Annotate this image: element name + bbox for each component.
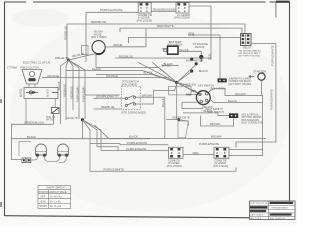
wire RED to relay <box>129 38 241 44</box>
wire RED/WHITE <box>120 28 242 33</box>
wire right block to right bus <box>189 6 211 60</box>
svg-text:BLOCK: BLOCK <box>195 45 205 49</box>
svg-text:RELAY: RELAY <box>243 46 252 50</box>
wire PURPLE/WHITE top <box>86 12 138 62</box>
svg-text:PURPLE/WHITE: PURPLE/WHITE <box>270 45 274 66</box>
title block <box>250 201 296 220</box>
svg-text:SCH 170425 R1: SCH 170425 R1 <box>270 218 286 220</box>
svg-text:(NOT INPUT WILING): (NOT INPUT WILING) <box>239 56 261 58</box>
wire BLACK bus 3 <box>96 74 177 82</box>
svg-text:177788A: 177788A <box>7 67 17 70</box>
wire YELLOW to starter <box>209 80 262 95</box>
svg-text:RUN: RUN <box>41 201 46 203</box>
svg-text:BLACK: BLACK <box>162 64 171 68</box>
key switch S1 <box>196 83 225 104</box>
seat switch S3 <box>205 108 238 118</box>
faint smudge top left <box>12 9 68 27</box>
svg-text:BLACK: BLACK <box>129 135 138 139</box>
electric clutch L1 <box>7 61 50 84</box>
wire valve right RED/BLUE <box>105 46 146 48</box>
svg-text:WIRE ASSEMBLY: WIRE ASSEMBLY <box>272 206 290 209</box>
svg-text:DATE SCALE: DATE SCALE <box>250 214 263 217</box>
wire RED/BLUE long top <box>67 24 245 60</box>
wire long RED/BLUE mid bus <box>115 57 211 59</box>
svg-text:(P/N 170805): (P/N 170805) <box>122 82 138 86</box>
wire battery negative to engine block ground <box>178 51 201 55</box>
svg-text:BROWN: BROWN <box>210 122 220 126</box>
connector valve coil <box>82 46 89 55</box>
svg-text:ELECTROLUX MFG: ELECTROLUX MFG <box>250 203 269 205</box>
svg-text:PURPLE/WH: PURPLE/WH <box>82 86 86 102</box>
wire light loop left <box>19 142 31 157</box>
svg-text:TRANSMISSIONS: TRANSMISSIONS <box>152 8 175 12</box>
svg-text:PURPLE/WHITE: PURPLE/WHITE <box>126 147 146 151</box>
hourmeter M1 terminal A <box>190 58 193 61</box>
svg-text:RED/BLUE: RED/BLUE <box>70 86 74 99</box>
svg-text:ELECTRIC CLUTCH: ELECTRIC CLUTCH <box>23 61 50 65</box>
wire GREEN/BLACK <box>12 114 54 160</box>
svg-text:G + M + A1: G + M + A1 <box>50 195 62 198</box>
hourmeter terminal B <box>190 69 193 72</box>
svg-text:RED/BLUE: RED/BLUE <box>91 20 106 24</box>
svg-text:RED/BLUE: RED/BLUE <box>101 105 115 109</box>
svg-text:BLACK: BLACK <box>144 71 153 75</box>
svg-text:BLACK: BLACK <box>161 98 165 107</box>
svg-text:(P/N 170865): (P/N 170865) <box>91 35 107 39</box>
wire fuse top to black bus <box>54 99 56 108</box>
wire jumper feed <box>193 34 220 79</box>
headlight DS2 <box>58 144 69 157</box>
valve V1 (P/N 170865) <box>91 30 107 55</box>
connector comb tie-in lever B <box>213 147 229 168</box>
svg-text:BLACK: BLACK <box>92 67 101 71</box>
clutch connector box with diode <box>21 88 59 99</box>
svg-text:HOURMETER: HOURMETER <box>186 59 203 63</box>
wire key switch BLACK right staircase <box>210 100 262 103</box>
svg-text:YELLOW: YELLOW <box>235 92 247 96</box>
node J1 RED/BLUE B <box>67 59 70 62</box>
relay label <box>239 46 262 58</box>
headlight DS1 <box>36 144 47 157</box>
table key switch positions <box>38 186 71 209</box>
wire PURPLE/WHITE upper right from mesh <box>85 95 120 99</box>
wire ORANGE clutch feed <box>42 77 169 79</box>
connector comb tie-in lever A <box>167 147 183 168</box>
svg-text:BROWN: BROWN <box>142 93 152 97</box>
svg-text:ORG: ORG <box>193 151 199 155</box>
node J3 ON/OFF SW <box>175 81 178 84</box>
svg-text:BLACK: BLACK <box>204 109 213 113</box>
wire BLACK headlight bus <box>12 138 151 140</box>
svg-text:B + L + A1: B + L + A1 <box>50 200 61 203</box>
wire sheet-tab drop <box>275 2 277 18</box>
wire PTO right lower to J3 loop <box>136 84 177 104</box>
svg-text:ORANGE: ORANGE <box>47 74 59 78</box>
battery B1 <box>162 40 189 54</box>
wire BLACK bus 1 <box>96 54 177 83</box>
wire key switch lower left BLACK <box>182 102 203 108</box>
svg-text:PURPLE/WHITE: PURPLE/WHITE <box>104 168 124 172</box>
wire block B right returns <box>229 150 263 156</box>
scan artifact tick left lower <box>0 202 2 207</box>
svg-text:PURPLE/WHITE: PURPLE/WHITE <box>100 8 123 12</box>
svg-text:RED: RED <box>189 32 195 36</box>
svg-text:BLACK: BLACK <box>27 135 36 139</box>
svg-text:PURPLE/WHITE: PURPLE/WHITE <box>199 142 219 146</box>
svg-text:RED/BLUE: RED/BLUE <box>119 54 133 58</box>
svg-text:R/BLUE "B": R/BLUE "B" <box>55 56 69 60</box>
wire RED into key switch <box>186 93 196 95</box>
svg-text:PURPLE/WHITE: PURPLE/WHITE <box>269 89 273 110</box>
connector upper tie-in lever (right block) <box>174 3 190 20</box>
wire PURPLE/WHITE pair to block A <box>90 144 169 145</box>
wire RED/BLUE into PTO <box>94 108 122 110</box>
scan artifact tick left <box>0 99 2 103</box>
svg-text:(P/N 170234): (P/N 170234) <box>213 165 228 168</box>
svg-text:RED/BLUE: RED/BLUE <box>63 84 67 97</box>
connector shell below J4 <box>178 121 188 138</box>
svg-text:R/BL: R/BL <box>186 93 192 97</box>
jumper label <box>229 79 252 86</box>
svg-text:RED/WHITE: RED/WHITE <box>157 24 174 28</box>
node J2 VALVE B <box>81 118 84 121</box>
wire BLACK bus 2 <box>66 71 177 83</box>
ground engine block bolt <box>199 55 203 59</box>
svg-text:PURPLE/WH: PURPLE/WH <box>76 86 80 102</box>
svg-text:BLACK: BLACK <box>228 99 237 103</box>
svg-text:SHT 1 OF 1: SHT 1 OF 1 <box>250 218 262 220</box>
wire block A to block B <box>183 154 214 156</box>
starter M2 <box>249 70 266 81</box>
sheet tab dark box top right <box>276 1 290 3</box>
wire seat switch black <box>183 113 229 116</box>
svg-text:(NOT INPUT WILING): (NOT INPUT WILING) <box>229 84 252 86</box>
svg-text:RED: RED <box>191 89 197 93</box>
svg-text:BLACK: BLACK <box>47 88 50 97</box>
svg-text:ON/OFF SW "B": ON/OFF SW "B" <box>172 116 190 119</box>
svg-text:GREEN/BLACK: GREEN/BLACK <box>24 121 44 125</box>
wire J3 down and to key switch <box>177 83 201 120</box>
wire J1 fan <box>61 54 97 125</box>
svg-text:PURPLE/WHITE: PURPLE/WHITE <box>127 141 147 145</box>
wire headlight jumpers <box>31 157 67 163</box>
svg-text:(PTO DISENGAGED): (PTO DISENGAGED) <box>121 111 146 115</box>
wire PURPLE/WHITE long bottom <box>90 144 236 172</box>
wire J2 fan down <box>83 120 102 151</box>
wire clutch pins down <box>29 84 35 88</box>
wire TRANSMISSIONS link <box>151 10 176 12</box>
svg-text:RED: RED <box>207 54 211 60</box>
wire J4 link <box>166 120 188 126</box>
connector lower tie-in lever (left block) <box>137 3 153 23</box>
svg-text:RED/BL: RED/BL <box>114 43 124 47</box>
svg-text:(P/N 170234): (P/N 170234) <box>167 165 182 168</box>
wire BROWN from PTO right <box>136 97 165 138</box>
svg-text:VALVE "B": VALVE "B" <box>66 116 78 120</box>
wire relay to right bus <box>236 44 276 148</box>
svg-text:BOLT CONNECTOR: BOLT CONNECTOR <box>242 122 264 124</box>
diode CR1 <box>29 91 32 94</box>
svg-text:BROWN: BROWN <box>211 135 221 139</box>
wire J3 to hourmeter terminals <box>177 65 196 82</box>
svg-text:BLACK: BLACK <box>20 88 23 97</box>
PTO switch S2 <box>121 80 146 115</box>
svg-text:RED/BLUE: RED/BLUE <box>64 26 68 40</box>
wire solenoid drop <box>262 96 263 156</box>
svg-text:ADJ. & VIRTUAL: ADJ. & VIRTUAL <box>242 114 260 117</box>
svg-text:START: START <box>40 205 48 208</box>
relay U1 <box>241 34 252 46</box>
wire PURPLE/WH into PTO <box>94 97 126 99</box>
wire diagonal feed to J3 <box>138 62 177 82</box>
fuse F1 <box>46 108 59 122</box>
svg-text:BLACK: BLACK <box>199 69 208 73</box>
svg-text:(P/N 170234): (P/N 170234) <box>174 16 190 20</box>
svg-text:(P/N 170234): (P/N 170234) <box>137 18 153 22</box>
svg-text:B + S + A1: B + S + A1 <box>50 205 62 208</box>
wire clutch box left down <box>25 99 27 125</box>
wire hourmeter black <box>162 65 179 67</box>
svg-text:BLACK: BLACK <box>57 81 61 90</box>
connector headlight plug <box>22 158 31 163</box>
housing box below J3 <box>169 86 192 95</box>
node J4 ON/OFF SW B <box>177 118 180 121</box>
svg-text:OFF: OFF <box>41 196 46 198</box>
svg-text:CIRCUIT MAKE: CIRCUIT MAKE <box>50 191 67 194</box>
solenoid label text <box>242 114 264 125</box>
wire BROWN seat return <box>200 116 233 127</box>
wire to battery positive <box>145 28 147 47</box>
svg-text:P/N 109748X SEALED: P/N 109748X SEALED <box>239 49 262 52</box>
wire BLACK / BROWN long run <box>95 125 267 139</box>
connector jumper (black) <box>218 78 227 82</box>
svg-text:ON/OFF SWITCH: ON/OFF SWITCH <box>46 188 65 190</box>
svg-text:POSITION: POSITION <box>39 192 50 194</box>
